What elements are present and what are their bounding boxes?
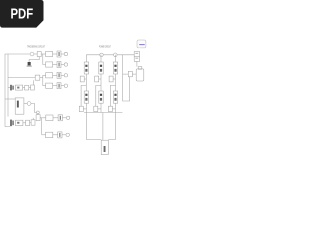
wire branch2 [100, 55, 102, 113]
wire branch3 [115, 55, 117, 113]
wire [53, 117, 58, 119]
gate block GB2 [95, 76, 99, 82]
block G2 [31, 85, 35, 90]
wire [98, 108, 101, 110]
wire row1 feed [5, 53, 30, 55]
gate block GB6 [108, 106, 112, 111]
terminal T1 [30, 52, 34, 56]
output circle O1 [64, 52, 67, 55]
wire [99, 78, 101, 80]
output circle O5 [66, 116, 69, 119]
comment bubble icon [137, 40, 146, 50]
wire [84, 78, 86, 80]
output circle O2 [64, 63, 67, 66]
output circle O3 [64, 74, 67, 77]
wire [30, 122, 32, 124]
wire [61, 53, 64, 55]
svg-text:TRIGGERING CIRCUIT: TRIGGERING CIRCUIT [27, 45, 45, 49]
block PSU2 [15, 85, 22, 90]
wire motor left leg [87, 113, 102, 140]
bus outer wire [5, 54, 10, 127]
wire [61, 85, 64, 87]
gate block GB3 [109, 76, 113, 82]
wire [41, 53, 45, 55]
rail circle A [100, 53, 103, 56]
block C1a [57, 51, 61, 57]
wire [53, 64, 57, 66]
wire [83, 108, 86, 110]
gate block GB5 [94, 106, 98, 111]
wire [123, 73, 129, 75]
block R2a [46, 62, 53, 67]
wire [53, 74, 57, 76]
block R3a [46, 73, 53, 78]
block R5a [46, 115, 53, 121]
wire bottom rail [84, 112, 122, 114]
wire [29, 87, 31, 89]
wire [113, 78, 115, 80]
wire [61, 74, 64, 76]
page background [0, 0, 149, 198]
output circle O4 [64, 84, 67, 87]
wire riser to J3 [32, 118, 34, 120]
wire h-stub 1 [81, 85, 86, 106]
wire row5 [42, 117, 46, 119]
block G3 [31, 120, 35, 125]
gate block GB4 [79, 106, 83, 111]
wire [24, 103, 27, 105]
battery B2 [10, 85, 11, 91]
block R6a [46, 132, 53, 138]
block C6a [58, 132, 62, 138]
fuse block [134, 52, 139, 62]
wire branch1 [85, 55, 87, 113]
block RC1 [128, 71, 132, 76]
block PSU3 [15, 120, 23, 125]
wire [53, 85, 57, 87]
junction block J3 [36, 115, 40, 121]
wire h-stub 2 [96, 85, 101, 106]
output circle O6 [66, 133, 69, 136]
block C3a [57, 72, 61, 78]
block R1a [46, 51, 53, 56]
wire group3 top [5, 98, 15, 100]
gate block GB1 [80, 76, 84, 82]
wire row3 feed [8, 77, 35, 79]
wire h-stub 3 [110, 85, 115, 106]
PDF badge [0, 0, 44, 28]
wire [31, 104, 37, 113]
block C5a [58, 115, 62, 121]
capacitor body [136, 69, 144, 81]
wire [62, 117, 66, 119]
scr S4 [84, 91, 88, 103]
battery B3 [10, 120, 11, 127]
junction circle small [37, 111, 40, 114]
wire conn rows 5-6 [40, 118, 42, 135]
wire feed2 stub [8, 87, 10, 89]
wire conn rows 1-2 [43, 54, 46, 65]
wire [61, 64, 64, 66]
wire riser to J2 [33, 80, 35, 85]
scr S2 [99, 62, 103, 74]
block C2a [57, 62, 61, 68]
svg-text:PDF: PDF [11, 6, 34, 23]
block F3 [26, 120, 30, 125]
wire row6 [42, 134, 46, 136]
ground pot [28, 62, 31, 65]
wire row4 [43, 85, 46, 87]
wire [23, 122, 26, 124]
junction block J2 [35, 75, 40, 80]
wire top rail [86, 54, 134, 56]
bus inner wire [7, 54, 9, 117]
wire [23, 87, 25, 89]
wire [53, 53, 57, 55]
junction circle [27, 102, 31, 106]
rail circle B [114, 53, 118, 57]
scr S3 [113, 62, 117, 74]
block R4a [46, 83, 53, 88]
wire [112, 108, 115, 110]
wire [40, 77, 43, 79]
block A1 [37, 52, 41, 57]
capacitor cap [138, 67, 142, 70]
ground wire [29, 57, 39, 62]
wire [34, 53, 37, 55]
wire right drop [123, 55, 130, 101]
block F2 [25, 86, 29, 91]
wire motor mid leg [102, 113, 104, 141]
wire [132, 73, 136, 75]
scr S5 [99, 91, 103, 103]
block C4a [57, 83, 61, 89]
wire conn rows 3-4 [42, 75, 44, 85]
motor M [101, 140, 108, 154]
wire [62, 134, 66, 136]
wire motor right leg [108, 113, 115, 140]
svg-text:POWER CIRCUIT: POWER CIRCUIT [99, 45, 111, 49]
wire [53, 134, 58, 136]
wire [136, 61, 138, 66]
scr S6 [113, 91, 117, 103]
wire row3 [43, 74, 46, 76]
scr S1 [84, 62, 88, 74]
transformer T3 [15, 98, 24, 114]
ground bar [27, 65, 32, 67]
